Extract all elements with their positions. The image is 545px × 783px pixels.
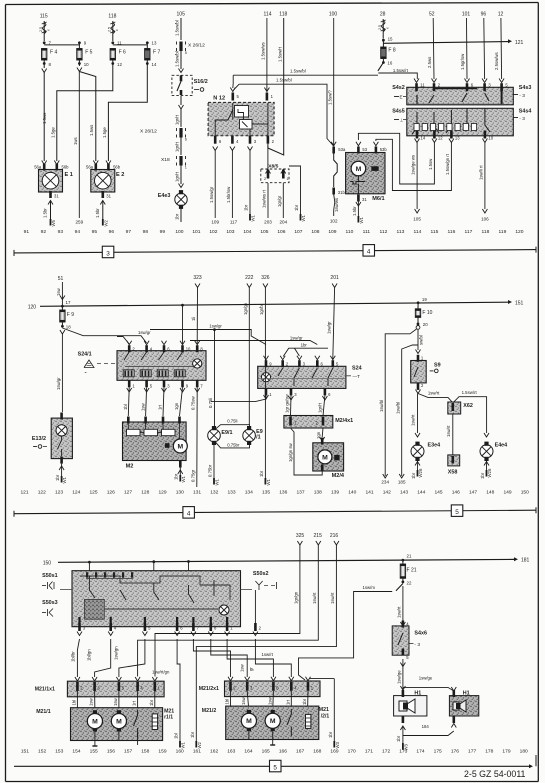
svg-text:168: 168 — [313, 749, 321, 755]
svg-text:F 7: F 7 — [153, 50, 160, 56]
svg-text:1sw/rt: 1sw/rt — [397, 606, 402, 618]
svg-text:1sw/rt: 1sw/rt — [312, 592, 317, 604]
svg-text:—T: —T — [353, 374, 361, 379]
wire F6 to lamp E1 56b — [57, 66, 113, 161]
arrow below node 10 — [77, 68, 82, 72]
svg-text:1.5ws: 1.5ws — [89, 125, 94, 136]
svg-text:109: 109 — [211, 220, 219, 225]
wire rail to S24/1 pin10 — [181, 304, 184, 345]
arrow into E4e3 — [179, 184, 184, 188]
svg-text:53a: 53a — [338, 147, 346, 152]
svg-text:M21/2x1: M21/2x1 — [199, 686, 219, 692]
svg-text:0.75sw: 0.75sw — [191, 395, 196, 410]
junction node 7 — [43, 41, 52, 46]
M2/4 pin top — [321, 438, 324, 445]
label M2/4x1 — [335, 418, 353, 424]
S50 pin 3 — [77, 623, 86, 636]
S4 contact row — [414, 124, 477, 131]
svg-text:1sw/rt/gn: 1sw/rt/gn — [152, 670, 170, 675]
junction node 16 — [382, 59, 393, 66]
svg-text:W1: W1 — [215, 478, 220, 485]
S24/1 pin 5 — [145, 380, 153, 388]
svg-text:177: 177 — [468, 749, 476, 755]
ground W1 under M2 — [180, 475, 186, 483]
svg-text:1br: 1br — [396, 735, 401, 742]
svg-text:sw/bl: sw/bl — [419, 335, 424, 345]
wire M2 to ground — [174, 468, 183, 481]
arrow end of 106 wire — [482, 209, 487, 213]
svg-text:M21/1: M21/1 — [36, 709, 51, 715]
svg-text:13: 13 — [152, 41, 157, 46]
M2 pin b — [144, 417, 147, 424]
E13/2 internal switch — [58, 436, 62, 456]
connector strip M21/2x1 — [199, 681, 320, 697]
svg-text:215: 215 — [314, 533, 323, 539]
svg-text:1sw/ws: 1sw/ws — [334, 198, 339, 212]
svg-text:104: 104 — [243, 229, 251, 235]
svg-text:145: 145 — [434, 490, 442, 496]
connector M2/4x1 box — [284, 416, 333, 429]
fuse F6 — [110, 49, 126, 61]
arrow end 234 — [383, 474, 388, 478]
E13/2 top pin — [60, 413, 63, 420]
label S4x6 — [410, 631, 427, 649]
label M6/1 — [372, 196, 384, 202]
svg-text:184: 184 — [422, 724, 430, 729]
tail lamp E4e4 — [480, 433, 507, 461]
svg-text:10: 10 — [186, 347, 191, 352]
svg-text:16: 16 — [387, 61, 392, 66]
destination label 185 — [398, 479, 406, 484]
M2 bottom pin — [179, 461, 182, 468]
wire N12 pin2 to X8/5 — [268, 18, 284, 155]
S24/1 pin 9 — [181, 380, 189, 388]
svg-text:·•·: ·•· — [84, 371, 87, 375]
svg-text:1br: 1br — [328, 731, 333, 738]
arrow end 185 — [399, 474, 404, 478]
M21/1x1 pin 1 — [152, 677, 160, 691]
svg-text:325: 325 — [296, 533, 305, 539]
svg-text:1.5br: 1.5br — [95, 208, 100, 218]
S4 pin 5 — [499, 79, 508, 92]
svg-text:234: 234 — [381, 479, 389, 484]
wire S4x6 to horns — [396, 659, 403, 689]
svg-text:1br: 1br — [411, 472, 416, 479]
horn H1 left pins — [400, 686, 405, 723]
junction node 9 — [78, 41, 87, 49]
label M21/2/1 — [319, 707, 330, 720]
wire mid ground W1 — [174, 643, 180, 741]
fuse F5 — [77, 49, 93, 61]
S24 bottom pin 1 — [265, 388, 273, 396]
svg-text:53b: 53b — [380, 147, 388, 152]
svg-text:160: 160 — [176, 749, 184, 755]
svg-text:124: 124 — [72, 490, 80, 496]
svg-text:S4s2: S4s2 — [392, 85, 405, 91]
svg-text:1sw/rt: 1sw/rt — [410, 414, 415, 426]
fuse F9 — [60, 306, 75, 322]
svg-text:1.5sw/?: 1.5sw/? — [327, 90, 332, 105]
svg-text:151: 151 — [515, 301, 524, 307]
pin 56a of E2 — [86, 164, 97, 171]
light switch S4 lower box — [407, 108, 514, 136]
ground W3 right bottom — [334, 741, 340, 749]
wire S50 pin6 to ground stub — [176, 639, 178, 643]
svg-text:159: 159 — [158, 749, 166, 755]
pin 2 of N12 — [267, 136, 275, 144]
ground W26 under E4e4 — [487, 468, 493, 477]
svg-text:1sw: 1sw — [113, 697, 118, 706]
svg-text:S4s4: S4s4 — [519, 109, 532, 115]
switch blade at F8 — [378, 63, 384, 71]
wire label 1.5ge E2 — [102, 127, 107, 138]
svg-text:97: 97 — [126, 229, 132, 235]
wire label 1.5ws E2 — [89, 125, 94, 136]
svg-text:167: 167 — [296, 749, 304, 755]
M2 element — [165, 443, 170, 448]
svg-text:r1/1: r1/1 — [164, 715, 173, 721]
wire 101 to S4 pin6 — [460, 18, 467, 79]
svg-text:10: 10 — [488, 136, 493, 141]
switch S16/2 contact — [177, 75, 208, 95]
wire branch to dest 185 — [395, 345, 418, 476]
svg-text:gr: gr — [249, 667, 254, 671]
wire M6/1 31b down dest 102 — [334, 195, 339, 217]
svg-text:1gr/rt: 1gr/rt — [175, 171, 180, 182]
svg-text:151: 151 — [21, 749, 29, 755]
svg-text:S4s3: S4s3 — [519, 85, 532, 91]
M6/1 motor circle — [351, 161, 366, 176]
wire horn link bottom 184 — [400, 724, 456, 736]
arrow below S4 pin14 — [415, 139, 420, 143]
svg-text:259: 259 — [75, 220, 83, 225]
wires M21/2x1 to M21/2 — [225, 691, 309, 714]
node label 52 — [429, 12, 435, 18]
svg-text:20: 20 — [423, 322, 428, 327]
wire node18 branch to S24/1 pin4 — [62, 328, 151, 343]
svg-text:326: 326 — [261, 275, 270, 281]
svg-text:W26: W26 — [487, 468, 492, 477]
svg-text:169: 169 — [330, 749, 338, 755]
svg-text:1rt: 1rt — [285, 699, 290, 705]
svg-text:F 4: F 4 — [50, 50, 57, 56]
svg-text:31b: 31b — [338, 190, 346, 195]
wire E13/2 to ground — [55, 464, 64, 481]
svg-text:96: 96 — [481, 12, 487, 18]
S4 pin 6 — [465, 79, 474, 92]
arrow below S4x6 — [400, 663, 405, 667]
wire B run to S24 pin9 — [150, 324, 266, 345]
svg-text:1sw/ws rt: 1sw/ws rt — [262, 189, 267, 208]
svg-text:127: 127 — [124, 490, 132, 496]
ground W2 mid bottom — [196, 741, 202, 749]
arrow below N12 pin6 — [213, 147, 218, 151]
destination label 102 — [330, 219, 338, 224]
svg-text:X 26/12: X 26/12 — [140, 129, 157, 135]
S4 pin 2 — [432, 79, 441, 92]
svg-text:126: 126 — [107, 490, 115, 496]
svg-text:M6/1: M6/1 — [372, 196, 384, 202]
svg-text:161: 161 — [193, 749, 201, 755]
svg-text:118: 118 — [108, 14, 116, 20]
wire below S16/2 — [180, 96, 182, 105]
switch-lamp E13/2 box — [51, 418, 72, 459]
connector X26/12 — [140, 128, 187, 142]
wire from 105 — [175, 18, 181, 40]
svg-text:12: 12 — [498, 12, 504, 18]
M21/2x1 pin 2 — [228, 677, 236, 691]
svg-text:166: 166 — [279, 749, 287, 755]
label S24 — [346, 366, 362, 379]
M21/2 motor 2 — [265, 710, 280, 745]
node label 325 — [296, 533, 305, 539]
svg-text:S24: S24 — [352, 366, 362, 372]
horn H1 left symbol — [399, 699, 415, 713]
wire 96 to S4 pin3 — [483, 18, 486, 79]
wire 325 bus to strip pin 154.8 — [155, 545, 300, 677]
stub rail to S50 c — [187, 560, 190, 571]
wire 1ws long vertical from node 10 — [73, 72, 80, 219]
wire to S24/1 pin2 — [117, 337, 129, 345]
arrow below 216 — [334, 541, 339, 545]
svg-text:181: 181 — [521, 558, 530, 564]
wire S50 pin5 to strip — [114, 639, 145, 677]
pin 4 of N12 — [231, 136, 239, 144]
wire label 1.5sw/bl upper — [290, 69, 306, 74]
svg-text:M: M — [116, 719, 122, 726]
S24 pin 9 — [264, 356, 273, 368]
svg-text:133: 133 — [227, 490, 235, 496]
wire S24 pin1 branch left — [211, 395, 269, 402]
svg-text:99: 99 — [160, 229, 166, 235]
svg-text:109: 109 — [328, 229, 336, 235]
svg-text:E4e4: E4e4 — [495, 443, 508, 449]
svg-text:S16/2: S16/2 — [194, 79, 208, 85]
wire horn link top — [403, 676, 454, 692]
svg-text:114: 114 — [264, 12, 272, 18]
svg-text:105: 105 — [260, 229, 268, 235]
label M2 — [126, 464, 134, 470]
E13/2 bottom pin — [60, 457, 63, 464]
svg-text:14: 14 — [152, 62, 157, 67]
middle feed rail 120-151 — [28, 300, 524, 310]
destination label 204 — [279, 220, 287, 225]
svg-text:14: 14 — [421, 136, 426, 141]
svg-text:2.5: 2.5 — [108, 27, 112, 32]
arrow below 326 — [263, 284, 268, 288]
svg-text:2: 2 — [264, 177, 266, 181]
S24/1 pin 7 — [196, 380, 204, 388]
svg-text:130: 130 — [176, 490, 184, 496]
M6/1 pin 53a — [331, 142, 346, 154]
wire 52 to S4 pin2 — [427, 18, 434, 79]
grid coordinate row 91-120 — [24, 229, 524, 235]
arrow below E1 — [48, 201, 53, 205]
svg-text:S50s1: S50s1 — [42, 573, 58, 579]
wire branch to dest 234 — [379, 329, 417, 476]
wire N12 pin4 down — [226, 151, 232, 219]
svg-text:2.5sw/ws: 2.5sw/ws — [494, 52, 499, 70]
svg-text:W3: W3 — [335, 741, 340, 748]
wire S24/1 pin1 to M2 — [123, 387, 132, 416]
wire 216 bus to ground w2 — [190, 545, 336, 741]
svg-text:1br: 1br — [174, 473, 179, 480]
svg-text:W1: W1 — [181, 475, 186, 482]
wire X8/5 right branch — [289, 166, 301, 214]
svg-text:111: 111 — [363, 229, 371, 235]
fog lamp E9/1 — [208, 426, 233, 445]
svg-text:172: 172 — [382, 749, 390, 755]
svg-text:N 12: N 12 — [213, 96, 225, 102]
svg-text:1gr/gn sw: 1gr/gn sw — [288, 442, 293, 462]
svg-text:121: 121 — [515, 40, 524, 46]
bottom divider / title block line — [14, 755, 536, 768]
label S50s1 — [42, 573, 58, 590]
wire E9/1 to ground — [208, 442, 214, 478]
M21/1 resistor — [152, 714, 157, 730]
svg-text:- 3: - 3 — [519, 116, 525, 122]
wire 201 to S24 pin5 — [327, 288, 335, 360]
S24/1 pin 6 — [162, 341, 171, 353]
M2 pin c — [162, 417, 165, 424]
S50 pin 6 — [175, 623, 184, 636]
svg-text:6: 6 — [185, 138, 187, 142]
ground W5 — [51, 219, 57, 227]
svg-text:E 2: E 2 — [116, 172, 124, 178]
svg-text:1.5br: 1.5br — [43, 208, 48, 218]
label M21/1/1 — [164, 709, 174, 721]
S24/1 pin 3 — [163, 380, 171, 388]
svg-text:1gr/gn: 1gr/gn — [294, 591, 299, 604]
svg-text:1.5gr/sw: 1.5gr/sw — [460, 53, 465, 70]
arrow into E2 pin 56a — [93, 161, 98, 165]
wire S4 pin13 to M6/1 pin53b — [376, 139, 452, 190]
ground W1 under E13/2 — [62, 476, 68, 484]
wire F21 down to S4x6 — [397, 586, 403, 622]
junction node 20 — [417, 317, 429, 327]
svg-text:179: 179 — [502, 749, 510, 755]
S9 pin 2 — [417, 383, 424, 390]
svg-text:1br: 1br — [480, 472, 485, 479]
svg-text:165: 165 — [262, 749, 270, 755]
svg-text:175: 175 — [434, 749, 442, 755]
svg-text:1sw: 1sw — [140, 402, 145, 411]
connector X58 — [448, 455, 460, 476]
horn H1 right box — [449, 691, 478, 717]
arrow into E1 pin 56b — [54, 161, 59, 165]
svg-text:1sw/bl: 1sw/bl — [395, 402, 400, 414]
arrow below 222 — [247, 284, 252, 288]
wire label 1.5ge E1 — [51, 127, 56, 138]
svg-text:M2: M2 — [126, 464, 134, 470]
svg-text:F 6: F 6 — [119, 50, 126, 56]
svg-text:X58: X58 — [448, 469, 458, 475]
junction node 21 — [402, 554, 412, 562]
S50s2 pin 2 — [253, 590, 262, 636]
svg-text:149: 149 — [503, 490, 511, 496]
svg-text:W1: W1 — [301, 214, 306, 221]
S24 internals — [258, 368, 345, 386]
svg-text:1gr/rt: 1gr/rt — [175, 141, 180, 152]
svg-text:1sw/gr: 1sw/gr — [209, 324, 222, 329]
svg-text:110: 110 — [346, 229, 354, 235]
svg-text:0.75br: 0.75br — [208, 464, 213, 477]
stub rail to S50 b — [152, 560, 155, 570]
svg-text:1.5sw: 1.5sw — [428, 158, 433, 170]
wire D run to S24 pins 2 3 — [283, 343, 328, 357]
wire X18 to E4e3 — [175, 166, 181, 185]
node label 115 — [40, 14, 48, 20]
section marker box 5 bottom — [270, 760, 282, 772]
svg-text:W1: W1 — [62, 476, 67, 483]
svg-text:21: 21 — [407, 554, 412, 559]
M21/1 ground stubs — [92, 733, 137, 746]
svg-text:56a: 56a — [86, 165, 94, 170]
svg-text:153: 153 — [55, 749, 63, 755]
svg-text:1sw: 1sw — [89, 697, 94, 706]
lamp E4e3 — [158, 190, 187, 209]
section marker box 4 — [363, 245, 375, 257]
wire M2/4x1 pin2 to M2/4 — [316, 428, 325, 441]
svg-text:1gr/bl: 1gr/bl — [259, 304, 264, 315]
arrow below E2 — [100, 201, 105, 205]
svg-text:117: 117 — [230, 220, 238, 225]
svg-text:138: 138 — [314, 490, 322, 496]
wire 222 down — [243, 288, 249, 425]
svg-text:W26: W26 — [418, 468, 423, 477]
wire S50 pin8 to M21/2 strip — [211, 639, 247, 677]
svg-text:150: 150 — [521, 490, 529, 496]
svg-text:170: 170 — [348, 749, 356, 755]
svg-text:17: 17 — [66, 300, 71, 305]
svg-text:100: 100 — [329, 12, 338, 18]
svg-text:M2/4: M2/4 — [332, 473, 345, 479]
svg-text:W5: W5 — [51, 219, 56, 226]
svg-text:132: 132 — [210, 490, 218, 496]
svg-text:M21: M21 — [319, 707, 329, 713]
svg-text:1sw/rt: 1sw/rt — [428, 391, 440, 396]
label M2/4 — [332, 473, 345, 479]
svg-text:201: 201 — [330, 275, 339, 281]
M21/2 resistor — [306, 714, 311, 728]
svg-text:1bl: 1bl — [123, 404, 128, 410]
stub rail to S50 a — [88, 561, 91, 571]
svg-text:1: 1 — [185, 166, 187, 170]
switch block S24 box — [258, 366, 346, 388]
wire S50 pin3 to strip — [71, 639, 80, 677]
svg-text:1gr ge/sw: 1gr ge/sw — [285, 393, 290, 413]
svg-text:M: M — [270, 718, 276, 725]
destination label 117 — [230, 220, 238, 225]
destination label 106 — [481, 217, 489, 222]
svg-text:150: 150 — [43, 561, 52, 567]
junction node 12 — [111, 60, 122, 67]
section marker box 5 — [451, 505, 463, 517]
svg-text:52: 52 — [429, 12, 435, 18]
wire 1.5sw/bl upper run — [233, 75, 378, 88]
label S4s4 — [514, 109, 532, 123]
svg-text:W2: W2 — [103, 219, 108, 226]
svg-text:M: M — [177, 443, 183, 450]
svg-text:x: x — [115, 29, 119, 31]
M21/1 switch contact — [134, 710, 138, 737]
S24 pin 3 — [297, 356, 306, 368]
S4 pin 3 — [482, 79, 491, 92]
svg-text:1sw/rt: 1sw/rt — [330, 592, 335, 604]
wire X62 to E4e4 — [454, 390, 487, 433]
wire 1.5sw/bl lower run — [234, 84, 328, 133]
ground W1 under M6/1 — [358, 216, 364, 224]
